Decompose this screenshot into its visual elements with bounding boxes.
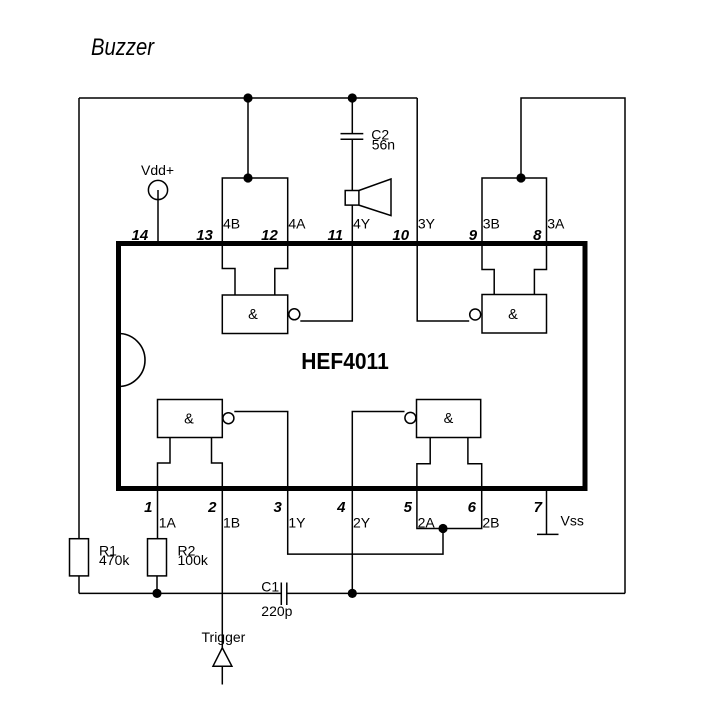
U1B input staircase to pin 6 [468,438,482,487]
svg-text:12: 12 [261,227,278,244]
U1C input staircase from pin 8 [534,246,546,295]
U1D input staircase from pin 13 [222,246,235,295]
svg-text:4: 4 [336,499,346,516]
wire: 4Y net speaker to pin 11 into IC to gate U1D output wire [300,205,352,321]
svg-text:Vdd+: Vdd+ [141,162,174,178]
junction: 3B/3A bridge [516,173,525,182]
svg-text:470k: 470k [99,552,130,568]
Vss ground bar [537,533,559,535]
svg-text:2Y: 2Y [353,514,371,530]
U1A input staircase to pin 1 [158,438,171,487]
junction: 2Y at bottom rail [348,589,357,598]
svg-text:7: 7 [534,499,543,516]
svg-text:5: 5 [404,499,413,516]
junction: R2 at bottom rail [152,589,161,598]
wire: bottom rail right of C1 to right border [287,592,625,594]
wire: bottom rail left of C1 [79,592,281,594]
svg-text:&: & [248,307,258,323]
svg-text:3A: 3A [547,216,565,232]
U1A input staircase to pin 2 [212,438,223,487]
capacitor C1 plates [281,583,287,606]
svg-text:13: 13 [196,227,213,244]
wire: 2A/2B bridge under pins 5,6 [417,491,482,529]
svg-text:3Y: 3Y [418,216,436,232]
svg-text:&: & [444,411,454,427]
svg-text:4Y: 4Y [353,216,371,232]
wire: C2 to speaker [351,139,353,190]
svg-text:1Y: 1Y [288,514,306,530]
junction: 4B/4A bridge [243,173,252,182]
svg-text:1: 1 [144,499,152,516]
svg-text:4A: 4A [288,216,306,232]
speaker LS1 [345,191,359,206]
wire: 3Y net pin 10 drop from rail into IC to gate U1C output wire [417,98,469,321]
svg-text:11: 11 [328,227,344,244]
wire: top Vdd rail [79,97,417,99]
svg-text:9: 9 [469,227,478,244]
svg-text:220p: 220p [261,603,292,619]
wire: pin 1 to R2 top [157,491,159,539]
U1D input staircase from pin 12 [275,246,288,295]
junction: Vdd rail / 4B4A bridge tap [243,93,252,102]
wire: R2 bottom to bottom rail [156,576,158,594]
svg-text:&: & [184,412,194,428]
wire: Vdd terminal to pin 14 [157,190,159,244]
junction: 2A/2B bridge tap [438,524,447,533]
wire: 2Y net gate U1B output to pin 4 down to bottom rail [352,412,404,594]
wire: 4B/4A input bridge over pins 13,12 [222,178,287,244]
wire: pin 7 to Vss ground [546,491,548,534]
NAND gate U1C body (pins 9,8 -> 10) [482,295,547,334]
resistor R1 body [70,539,89,576]
wire: trigger stub [221,666,223,684]
wire: top-right rail and right border down to bottom rail [521,98,625,593]
NAND gate U1D body (pins 13,12 -> 11) [222,295,287,334]
U1B output bubble [405,412,416,423]
junction: Vdd rail / C2 tap [348,93,357,102]
wire: left supply rail (top rail to R1 top) [78,98,80,539]
U1C output bubble [470,309,481,320]
U1A output bubble [223,413,234,424]
svg-text:100k: 100k [178,552,209,568]
svg-text:2B: 2B [482,514,499,530]
svg-text:&: & [508,307,518,323]
U1D output bubble [289,309,300,320]
wire: rail drop to 4B/4A bridge [247,98,249,178]
wire: rail drop to C2 [351,98,353,133]
wire: 3B/3A input bridge over pins 9,8 [482,178,547,244]
U1B input staircase to pin 5 [417,438,430,487]
svg-text:14: 14 [132,227,149,244]
svg-text:2A: 2A [418,514,436,530]
svg-text:1A: 1A [159,514,177,530]
svg-text:C1: C1 [261,579,279,595]
capacitor C2 plates [341,134,364,140]
Vdd+ terminal circle [148,180,167,199]
svg-text:Buzzer: Buzzer [91,34,155,61]
svg-text:Trigger: Trigger [202,629,246,645]
svg-text:HEF4011: HEF4011 [301,348,389,374]
wire: 1Y net gate U1A output to pin 3 down and over to 2A/2B bridge [234,412,443,555]
svg-text:1B: 1B [223,514,240,530]
svg-text:Vss: Vss [561,513,584,529]
svg-text:3B: 3B [483,216,500,232]
svg-text:4B: 4B [223,216,240,232]
U1C input staircase from pin 9 [482,246,494,295]
IC notch [119,334,146,387]
wire: R1 bottom to bottom rail corner [78,576,80,594]
wire: pin 2 1B down to trigger [221,491,223,648]
resistor R2 body [148,539,167,576]
svg-text:6: 6 [468,499,477,516]
svg-text:56n: 56n [372,136,395,152]
svg-text:2: 2 [207,499,217,516]
svg-text:3: 3 [273,499,282,516]
trigger input arrow [213,648,232,666]
IC HEF4011 outline [119,244,586,489]
svg-text:8: 8 [533,227,542,244]
svg-text:10: 10 [392,227,409,244]
NAND gate U1A body (pins 1,2 -> 3) [158,400,223,438]
NAND gate U1B body (pins 5,6 -> 4) [417,400,481,438]
